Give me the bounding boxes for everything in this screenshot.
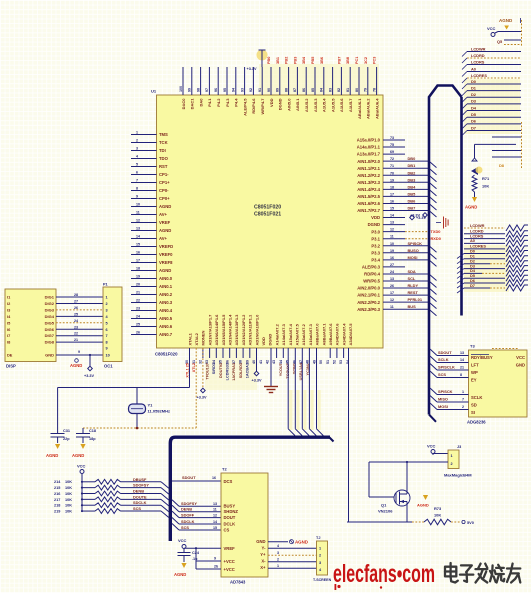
svg-text:VCC: VCC xyxy=(77,464,86,469)
svg-text:AD1N0/A10/P1.0: AD1N0/A10/P1.0 xyxy=(254,314,259,346)
svg-text:DIG7: DIG7 xyxy=(45,333,55,338)
svg-text:AIN1.0/P2.0: AIN1.0/P2.0 xyxy=(357,159,380,164)
svg-text:BUS: BUS xyxy=(408,304,417,309)
svg-text:19: 19 xyxy=(390,249,394,253)
svg-text:DENB: DENB xyxy=(133,489,144,494)
svg-text:5: 5 xyxy=(106,321,108,325)
svg-text:90: 90 xyxy=(267,88,271,92)
svg-text:CP1+: CP1+ xyxy=(159,180,170,185)
svg-text:75: 75 xyxy=(390,143,394,147)
svg-text:17: 17 xyxy=(136,258,140,262)
svg-text:A15a/A07.5: A15a/A07.5 xyxy=(295,323,300,345)
resistor R17 10K xyxy=(54,494,169,506)
svg-text:25: 25 xyxy=(74,312,78,316)
svg-text:92: 92 xyxy=(249,88,253,92)
svg-text:R73: R73 xyxy=(434,506,442,511)
svg-text:50: 50 xyxy=(319,360,323,364)
svg-text:52: 52 xyxy=(333,360,337,364)
svg-text:16: 16 xyxy=(390,256,394,260)
svg-text:1: 1 xyxy=(277,564,279,568)
svg-text:73: 73 xyxy=(390,136,394,140)
svg-text:AD7843: AD7843 xyxy=(230,580,246,585)
svg-text:A1U5.2: A1U5.2 xyxy=(304,98,309,112)
svg-text:RLDY: RLDY xyxy=(408,283,419,288)
svg-text:RXD0: RXD0 xyxy=(431,236,441,241)
svg-text:D0: D0 xyxy=(471,79,476,84)
svg-text:+3.3V: +3.3V xyxy=(84,374,94,378)
svg-text:23: 23 xyxy=(74,325,78,329)
svg-text:SDOUT: SDOUT xyxy=(182,475,196,480)
svg-text:97: 97 xyxy=(205,88,209,92)
svg-text:SPISCK: SPISCK xyxy=(438,389,453,394)
svg-text:27: 27 xyxy=(74,299,78,303)
svg-text:AIN5.1: AIN5.1 xyxy=(295,98,300,111)
svg-text:A0: A0 xyxy=(470,238,475,243)
svg-text:71: 71 xyxy=(390,164,394,168)
svg-text:10K: 10K xyxy=(65,480,72,484)
svg-text:ALE/P4.5: ALE/P4.5 xyxy=(242,98,247,116)
VCC flag and wire to T2 VREF xyxy=(178,538,221,553)
svg-text:14: 14 xyxy=(136,234,140,238)
svg-text:SDCLK: SDCLK xyxy=(181,519,195,524)
U5 pin names xyxy=(471,349,525,416)
svg-text:AIN0.4: AIN0.4 xyxy=(159,308,173,313)
svg-text:PB7: PB7 xyxy=(337,57,341,64)
svg-text:YCIN1: YCIN1 xyxy=(293,363,297,374)
wires LCD bus to edge with no-connects xyxy=(457,223,528,293)
wire XTAL1 net xyxy=(58,348,190,433)
svg-text:7: 7 xyxy=(136,178,138,182)
svg-text:AIN0.3: AIN0.3 xyxy=(159,300,173,305)
svg-text:AIN1.4/P2.4: AIN1.4/P2.4 xyxy=(357,187,380,192)
svg-text:AGND: AGND xyxy=(70,363,82,368)
svg-text:PFRL01: PFRL01 xyxy=(408,297,423,302)
svg-text:SIRD3: SIRD3 xyxy=(212,363,216,374)
svg-text:79: 79 xyxy=(364,88,368,92)
svg-text:MaxMagicB4M: MaxMagicB4M xyxy=(444,473,472,478)
svg-text:DA0: DA0 xyxy=(198,98,203,107)
svg-text:A1U5.6: A1U5.6 xyxy=(339,98,344,112)
svg-text:TFDU137: TFDU137 xyxy=(205,363,209,379)
svg-text:AGND: AGND xyxy=(159,268,171,273)
U1 right pin wires and numbers xyxy=(383,136,405,309)
wires bus to U5 SPI pins xyxy=(430,388,469,410)
svg-text:DB6: DB6 xyxy=(408,198,417,203)
svg-text:AIN0.6: AIN0.6 xyxy=(159,324,173,329)
svg-text:LCDWR: LCDWR xyxy=(471,46,486,51)
svg-text:MOSI: MOSI xyxy=(408,255,418,260)
wire Q1 drain up xyxy=(406,461,408,489)
svg-text:14: 14 xyxy=(390,214,394,218)
long wire pin to Q1 source rail xyxy=(348,348,350,522)
U1 top pin numbers xyxy=(179,86,377,92)
svg-text:2: 2 xyxy=(136,138,138,142)
svg-text:CS: CS xyxy=(224,528,230,533)
svg-text:28: 28 xyxy=(74,293,78,297)
svg-text:25: 25 xyxy=(136,322,140,326)
IC DISP segment display xyxy=(5,289,56,369)
svg-text:PC1: PC1 xyxy=(355,57,359,64)
svg-text:A15a/A07.4: A15a/A07.4 xyxy=(288,323,293,345)
svg-text:Y-: Y- xyxy=(262,546,267,551)
svg-text:P3.2: P3.2 xyxy=(371,243,380,248)
svg-text:P3.0: P3.0 xyxy=(371,229,380,234)
svg-text:18: 18 xyxy=(136,266,140,270)
svg-text:SCS: SCS xyxy=(438,372,446,377)
svg-text:ABa/AU6.2: ABa/AU6.2 xyxy=(366,98,371,119)
svg-text:DB0: DB0 xyxy=(408,156,416,161)
svg-text:A1U5.4: A1U5.4 xyxy=(322,98,327,112)
svg-text:88: 88 xyxy=(284,88,288,92)
svg-text:A34D/A07.5: A34D/A07.5 xyxy=(348,323,353,346)
svg-text:A16a/A07.2: A16a/A07.2 xyxy=(301,323,306,345)
svg-text:X-: X- xyxy=(261,559,266,564)
svg-text:DOUT: DOUT xyxy=(224,515,236,520)
svg-text:13: 13 xyxy=(460,351,464,355)
svg-text:P4.1: P4.1 xyxy=(207,98,212,107)
net flag AGND at T2 GND pin xyxy=(268,540,308,545)
wires SPI nets U1 right xyxy=(405,241,437,267)
svg-text:AGND: AGND xyxy=(46,453,58,458)
wires I2C and control nets U1 right xyxy=(405,269,437,316)
svg-text:AD1N1/A11/P1.1: AD1N1/A11/P1.1 xyxy=(248,314,253,345)
svg-text:DIG4: DIG4 xyxy=(45,314,55,319)
svg-text:BUSY: BUSY xyxy=(224,504,236,509)
svg-text:PB0: PB0 xyxy=(267,57,271,64)
svg-text:DAC1: DAC1 xyxy=(190,98,195,110)
connector P2 LCD outline xyxy=(429,86,462,422)
svg-text:10K: 10K xyxy=(482,184,489,189)
svg-text:D4: D4 xyxy=(471,105,477,110)
svg-text:DGND: DGND xyxy=(278,98,283,110)
ground flag AGND under C24 xyxy=(174,563,187,577)
svg-text:26: 26 xyxy=(390,284,394,288)
svg-text:VREFD: VREFD xyxy=(159,244,173,249)
svg-text:VREF0: VREF0 xyxy=(159,252,173,257)
svg-text:D7: D7 xyxy=(470,283,475,288)
power +3.3V flag connector P2 xyxy=(410,213,427,218)
resistor R19 10K xyxy=(54,506,169,518)
svg-text:GND: GND xyxy=(256,539,265,544)
svg-text:WP: WP xyxy=(471,370,478,375)
svg-text:1ACBA3: 1ACBA3 xyxy=(246,363,250,378)
connector T3 touch screen xyxy=(313,536,332,582)
svg-text:AGND: AGND xyxy=(499,18,513,23)
capacitor C32 xyxy=(76,429,96,443)
svg-text:1: 1 xyxy=(106,296,108,300)
svg-text:PC3: PC3 xyxy=(373,57,377,64)
svg-text:LCDRS: LCDRS xyxy=(471,59,485,64)
svg-text:3B6: 3B6 xyxy=(320,57,324,64)
svg-text:85: 85 xyxy=(311,88,315,92)
svg-text:23: 23 xyxy=(136,306,140,310)
svg-text:2b: 2b xyxy=(214,565,219,569)
wires DISP to OC1 xyxy=(56,293,103,355)
DISP pin names xyxy=(7,295,55,358)
svg-text:AIN2.2/P0.2: AIN2.2/P0.2 xyxy=(357,300,380,305)
svg-text:WR/P4.7: WR/P4.7 xyxy=(260,98,265,115)
svg-text:ALE/P0.3: ALE/P0.3 xyxy=(362,265,381,270)
svg-text:CP0-: CP0- xyxy=(159,188,169,193)
svg-text:TDO: TDO xyxy=(159,156,169,161)
svg-text:13: 13 xyxy=(390,277,394,281)
U1 part number text xyxy=(254,205,281,218)
svg-text:R71: R71 xyxy=(482,176,490,181)
svg-text:GND: GND xyxy=(516,363,525,368)
VCC flag resistor network xyxy=(77,464,86,512)
svg-text:SCS: SCS xyxy=(133,506,141,511)
svg-text:24: 24 xyxy=(136,314,140,318)
svg-text:AIN2.1/P0.1: AIN2.1/P0.1 xyxy=(357,293,380,298)
svg-text:RDY/BUSY: RDY/BUSY xyxy=(471,355,493,360)
svg-text:5: 5 xyxy=(136,162,138,166)
wires U1 P2 pins to connector DB0-DB7 xyxy=(405,156,437,217)
svg-text:SDOFSY: SDOFSY xyxy=(181,501,197,506)
svg-text:20: 20 xyxy=(136,282,140,286)
svg-text:32: 32 xyxy=(199,360,203,364)
svg-text:22: 22 xyxy=(136,298,140,302)
svg-text:A1U5.7: A1U5.7 xyxy=(348,98,353,112)
svg-text:2: 2 xyxy=(451,462,453,466)
U1 bottom pin numbers xyxy=(185,360,350,364)
svg-text:AIN1.6/P2.6: AIN1.6/P2.6 xyxy=(357,201,380,206)
svg-text:C8051F020: C8051F020 xyxy=(254,205,281,211)
svg-text:72: 72 xyxy=(390,157,394,161)
IC U5 ADG8236 body xyxy=(467,344,527,425)
svg-text:8: 8 xyxy=(106,341,108,345)
svg-text:DE: DE xyxy=(7,353,13,358)
svg-text:10K: 10K xyxy=(65,498,72,502)
svg-text:DISP: DISP xyxy=(6,364,16,369)
power +3.3V flag U1 VDD right xyxy=(410,215,427,220)
svg-text:X+: X+ xyxy=(260,565,266,570)
svg-text:3B1: 3B1 xyxy=(276,57,280,64)
svg-text:18p: 18p xyxy=(89,437,96,441)
power +3.3V flag OC1 xyxy=(84,354,94,378)
svg-text:D7: D7 xyxy=(471,125,476,130)
svg-text:15: 15 xyxy=(213,526,217,530)
svg-text:24: 24 xyxy=(390,270,394,274)
svg-text:A13a.0/P1.7: A13a.0/P1.7 xyxy=(357,152,381,157)
svg-text:AGND: AGND xyxy=(295,540,308,545)
svg-text:SI: SI xyxy=(471,410,475,415)
svg-text:RD/P0.4: RD/P0.4 xyxy=(364,272,380,277)
svg-text:DOUT93: DOUT93 xyxy=(219,363,223,378)
power VCC flag top right xyxy=(487,26,521,37)
svg-text:P3.4: P3.4 xyxy=(371,257,380,262)
svg-text:DGND: DGND xyxy=(368,222,380,227)
svg-text:21: 21 xyxy=(74,338,78,342)
svg-text:26: 26 xyxy=(136,330,140,334)
svg-text:DCS: DCS xyxy=(224,479,233,484)
svg-text:LCDRS33: LCDRS33 xyxy=(226,363,230,380)
svg-text:DOUTE: DOUTE xyxy=(133,494,147,499)
svg-text:OC1: OC1 xyxy=(104,364,113,369)
svg-text:Q1: Q1 xyxy=(381,503,387,508)
svg-text:10K: 10K xyxy=(434,513,441,518)
svg-text:A14a/A07.2: A14a/A07.2 xyxy=(274,323,279,345)
svg-text:LCDRES: LCDRES xyxy=(471,73,487,78)
svg-text:70: 70 xyxy=(390,171,394,175)
svg-text:VCC: VCC xyxy=(178,538,187,543)
capacitor C31 xyxy=(51,429,71,443)
svg-text:DB7: DB7 xyxy=(408,206,416,211)
svg-text:DENB: DENB xyxy=(181,507,192,512)
wires P0 pins to data bus with entries xyxy=(288,348,323,436)
svg-text:10K: 10K xyxy=(65,486,72,490)
svg-text:SDOUT: SDOUT xyxy=(438,350,452,355)
svg-text:AV+: AV+ xyxy=(159,236,168,241)
ground symbol red AGND connector xyxy=(436,217,448,229)
svg-text:215: 215 xyxy=(54,486,60,490)
svg-text:VDD: VDD xyxy=(269,98,274,107)
svg-text:PB5: PB5 xyxy=(311,57,315,64)
connector J3 MaxMagic xyxy=(444,445,472,478)
ground flag AGND under C32 xyxy=(72,444,86,458)
svg-text:AGND: AGND xyxy=(72,453,84,458)
svg-text:AD1N2/A12/P1.2: AD1N2/A12/P1.2 xyxy=(241,314,246,346)
svg-text:2: 2 xyxy=(462,405,464,409)
power +3.3V flag VDD pin xyxy=(252,348,262,383)
svg-text:D2: D2 xyxy=(471,92,477,97)
svg-text:21: 21 xyxy=(136,290,140,294)
U1 top pin names xyxy=(181,98,380,119)
svg-text:3: 3 xyxy=(136,146,138,150)
wire XTAL2 net dashed xyxy=(83,348,196,433)
svg-text:5V0: 5V0 xyxy=(467,520,474,525)
svg-text:C31: C31 xyxy=(63,429,70,433)
svg-text:8: 8 xyxy=(460,373,462,377)
svg-text:AGND: AGND xyxy=(159,228,171,233)
svg-text:SDA: SDA xyxy=(408,269,416,274)
svg-text:11: 11 xyxy=(136,210,140,214)
svg-text:13: 13 xyxy=(136,226,140,230)
transistor Q1 VN2106 xyxy=(378,489,410,514)
svg-text:ADG8236: ADG8236 xyxy=(467,420,486,425)
svg-text:LCDRD: LCDRD xyxy=(471,53,485,58)
wires T2 to touch connector xyxy=(268,544,317,568)
svg-text:19: 19 xyxy=(390,178,394,182)
svg-text:AIN0.7: AIN0.7 xyxy=(159,332,173,337)
highlight wash behind right D0-D7 labels xyxy=(464,79,520,134)
svg-text:98: 98 xyxy=(196,88,200,92)
svg-text:19: 19 xyxy=(136,274,140,278)
svg-text:218: 218 xyxy=(54,504,60,508)
svg-text:11: 11 xyxy=(213,508,217,512)
svg-text:AIN0.1: AIN0.1 xyxy=(159,284,173,289)
svg-text:P1: P1 xyxy=(103,283,108,287)
svg-text:+3.3V: +3.3V xyxy=(197,396,207,400)
svg-text:SCLK: SCLK xyxy=(438,357,449,362)
svg-text:EY: EY xyxy=(471,378,477,383)
svg-text:3B4: 3B4 xyxy=(302,56,306,64)
resistor R14 10K xyxy=(54,477,169,489)
svg-text:AD1N7/A13/P1.7: AD1N7/A13/P1.7 xyxy=(207,314,212,346)
svg-text:10K: 10K xyxy=(65,492,72,496)
svg-text:14: 14 xyxy=(460,358,464,362)
svg-text:83: 83 xyxy=(328,88,332,92)
svg-text:SCL: SCL xyxy=(408,276,416,281)
svg-text:+VCC: +VCC xyxy=(224,567,235,572)
svg-text:A1U5.3: A1U5.3 xyxy=(313,98,318,112)
svg-text:AIN1.3/P2.3: AIN1.3/P2.3 xyxy=(357,180,380,185)
svg-text:87: 87 xyxy=(293,88,297,92)
svg-text:SCLK: SCLK xyxy=(471,395,482,400)
U1 left pin wires and numbers xyxy=(131,130,157,334)
svg-text:26: 26 xyxy=(74,306,78,310)
svg-text:14: 14 xyxy=(213,520,217,524)
svg-text:16: 16 xyxy=(390,199,394,203)
svg-text:DIG3: DIG3 xyxy=(45,307,55,312)
svg-text:SCS: SCS xyxy=(181,525,189,530)
svg-text:1ACPRA3: 1ACPRA3 xyxy=(232,363,236,381)
svg-text:12: 12 xyxy=(136,218,140,222)
svg-text:18: 18 xyxy=(390,185,394,189)
wire J3 pin2 to Q1 gate xyxy=(369,462,448,497)
svg-text:VDD: VDD xyxy=(371,215,380,220)
svg-text:VREF8: VREF8 xyxy=(159,260,173,265)
U1 left pin names xyxy=(159,132,173,337)
svg-text:219: 219 xyxy=(54,509,60,513)
wires VCC to T2 +VCC pins xyxy=(196,548,221,569)
svg-text:D1: D1 xyxy=(471,85,477,90)
svg-text:9: 9 xyxy=(136,194,138,198)
svg-text:22p: 22p xyxy=(63,437,70,441)
watermark chinese char zi xyxy=(460,565,473,582)
svg-text:ABa/AU6.4: ABa/AU6.4 xyxy=(374,98,379,119)
svg-text:84: 84 xyxy=(320,88,324,92)
svg-text:XTAL2: XTAL2 xyxy=(194,332,199,345)
watermark elecfans.com xyxy=(333,560,435,590)
resistor R15 10K xyxy=(54,483,169,495)
svg-text:A34D/A07.4: A34D/A07.4 xyxy=(341,323,346,346)
svg-text:PB3: PB3 xyxy=(293,57,297,64)
svg-text:17: 17 xyxy=(390,192,394,196)
svg-text:69: 69 xyxy=(390,150,394,154)
svg-text:SHDNZ: SHDNZ xyxy=(224,509,239,514)
orange flag at Q1 xyxy=(417,495,429,508)
svg-text:D6: D6 xyxy=(471,119,477,124)
svg-text:U1: U1 xyxy=(151,89,157,94)
svg-text:78: 78 xyxy=(372,88,376,92)
svg-text:A1U5.5: A1U5.5 xyxy=(330,98,335,112)
net Q5 wire xyxy=(497,39,521,45)
svg-text:CP1-: CP1- xyxy=(159,172,169,177)
svg-text:MISO: MISO xyxy=(438,397,448,402)
svg-text:15: 15 xyxy=(390,207,394,211)
svg-text:54: 54 xyxy=(346,360,350,364)
wires TXD0 RXD0 dashed xyxy=(405,229,441,241)
svg-text:+3.3V: +3.3V xyxy=(410,214,420,218)
wire SDOUT bus to T2 DCS xyxy=(172,475,221,481)
svg-text:AGND: AGND xyxy=(417,503,429,508)
svg-text:15: 15 xyxy=(136,242,140,246)
svg-text:40: 40 xyxy=(252,360,256,364)
T2 right pin names xyxy=(256,539,266,570)
svg-text:PB2: PB2 xyxy=(285,57,289,64)
svg-text:3B8: 3B8 xyxy=(346,57,350,64)
svg-text:DGND: DGND xyxy=(268,334,273,346)
svg-text:AD1N4/A14/P1.4: AD1N4/A14/P1.4 xyxy=(228,314,233,346)
svg-text:BUSO: BUSO xyxy=(408,248,419,253)
wires D0-D7 top right xyxy=(462,79,521,136)
svg-text:12: 12 xyxy=(213,513,217,517)
crystal Y1 11.0592MHz xyxy=(129,403,170,414)
resistor R18 10K xyxy=(54,500,169,512)
highlight wash behind lower right D group labels xyxy=(464,245,509,292)
svg-text:A8Ba/A07.1: A8Ba/A07.1 xyxy=(321,323,326,346)
svg-text:SDOFF: SDOFF xyxy=(181,512,195,517)
